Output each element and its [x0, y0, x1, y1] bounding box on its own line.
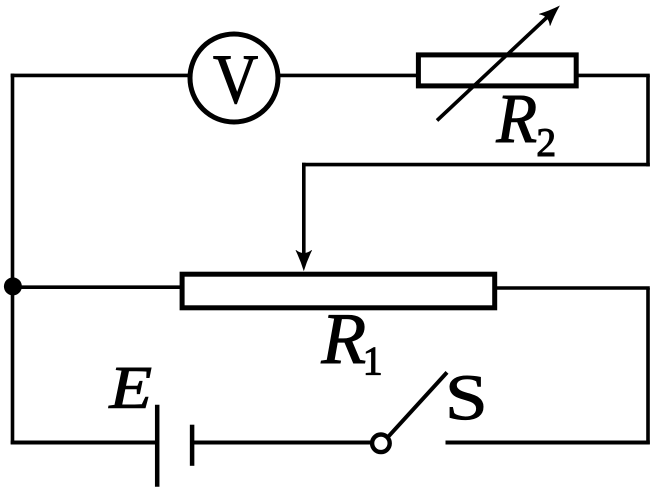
switch S lever — [389, 372, 447, 436]
switch S label — [450, 376, 483, 420]
battery E long plate — [155, 405, 160, 487]
wire right lower vertical — [646, 288, 650, 444]
battery E label — [109, 368, 151, 408]
potentiometer R1 body — [182, 274, 495, 308]
wire node to R1 — [13, 285, 184, 289]
wiper arrow to R1 — [296, 163, 312, 271]
wire R1 right — [495, 286, 650, 290]
voltmeter U1 circle — [190, 34, 278, 122]
resistor R2 arrow diagonal — [437, 0, 566, 120]
node junction dot — [4, 277, 22, 295]
switch S pivot circle — [372, 435, 390, 453]
wire right upper vertical — [646, 75, 650, 166]
wire bottom left — [11, 441, 156, 445]
resistor R2 body — [418, 55, 576, 86]
wire voltmeter to R2 — [280, 74, 418, 78]
resistor R2 value label R — [496, 96, 536, 142]
battery E short plate — [190, 425, 195, 466]
wire battery to switch — [192, 441, 371, 445]
wire bottom right — [446, 441, 650, 445]
wire R2 right — [576, 74, 650, 78]
wire wiper horizontal — [302, 163, 650, 167]
potentiometer R1 subscript 1 — [366, 348, 380, 375]
wire left vertical — [11, 74, 15, 445]
wire top left horizontal — [11, 74, 191, 78]
resistor R2 subscript 2 — [538, 129, 554, 156]
potentiometer R1 value label R — [321, 315, 365, 363]
voltmeter U1 label V — [214, 57, 258, 104]
